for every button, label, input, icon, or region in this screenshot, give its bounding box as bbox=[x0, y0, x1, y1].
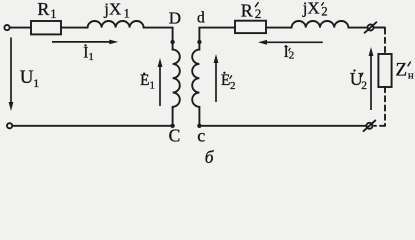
svg-text:d: d bbox=[197, 10, 205, 27]
svg-text:1: 1 bbox=[33, 76, 39, 90]
dashed wire load to bottom corner bbox=[384, 87, 386, 126]
voltage arrow U2' bbox=[369, 47, 374, 110]
wire coil1 to corner D bbox=[144, 27, 173, 29]
label I1 current bbox=[83, 44, 94, 63]
svg-text:1: 1 bbox=[124, 7, 130, 21]
wire W2 to node c bbox=[198, 107, 200, 126]
terminal bottom-left bbox=[7, 123, 12, 128]
svg-text:U: U bbox=[20, 67, 34, 88]
resistor R1 bbox=[31, 21, 61, 34]
crossed terminal bottom-right bbox=[366, 123, 372, 129]
svg-text:н: н bbox=[408, 69, 414, 81]
svg-text:R: R bbox=[37, 0, 49, 19]
label R2' bbox=[241, 0, 261, 21]
svg-text:C: C bbox=[169, 125, 181, 145]
svg-text:2: 2 bbox=[255, 6, 262, 21]
inductor jX2' bbox=[292, 21, 349, 28]
svg-text:1: 1 bbox=[150, 80, 155, 91]
crossed terminal top-right bbox=[368, 25, 374, 31]
wire corner D down bbox=[172, 28, 174, 50]
label U1 voltage bbox=[20, 67, 40, 90]
label Zn' load bbox=[396, 60, 414, 82]
label R1 bbox=[37, 0, 56, 21]
wire W1 to node C bbox=[172, 107, 174, 126]
bottom wire left bbox=[13, 125, 173, 127]
current arrow I2 bbox=[258, 40, 323, 45]
svg-text:E: E bbox=[140, 72, 149, 89]
svg-text:2: 2 bbox=[289, 49, 295, 61]
wire R1 to coil1 bbox=[61, 27, 88, 29]
svg-text:Z: Z bbox=[396, 60, 408, 81]
svg-text:R: R bbox=[241, 0, 253, 20]
resistor R2' bbox=[235, 21, 266, 33]
svg-text:D: D bbox=[169, 8, 181, 27]
svg-text:2: 2 bbox=[321, 5, 327, 19]
winding W1 (primary) bbox=[173, 50, 180, 107]
label jX1 bbox=[103, 0, 130, 21]
svg-text:2: 2 bbox=[361, 80, 367, 92]
node d junction dot bbox=[197, 40, 201, 44]
label I2' current bbox=[284, 44, 295, 61]
svg-text:1: 1 bbox=[50, 7, 56, 21]
inductor jX1 bbox=[88, 21, 144, 28]
bottom wire right bbox=[199, 125, 366, 127]
voltage arrow U1 bbox=[9, 38, 14, 112]
wire T1 to R1 bbox=[10, 27, 31, 29]
wire d to R2 bbox=[199, 27, 235, 29]
svg-text:2: 2 bbox=[230, 80, 236, 92]
svg-text:c: c bbox=[197, 125, 205, 145]
node D junction dot bbox=[170, 40, 174, 44]
dashed wire down to load bbox=[384, 29, 386, 55]
winding W2 (secondary) bbox=[192, 50, 199, 107]
wire terminal to corner bbox=[374, 27, 386, 29]
wire coil2 to top-right terminal bbox=[348, 27, 367, 29]
dashed wire corner to bottom-right terminal bbox=[374, 125, 385, 127]
load Z'n bbox=[378, 54, 391, 87]
current arrow I1 bbox=[52, 40, 118, 45]
node C junction dot bbox=[170, 124, 174, 128]
emf arrow E1 bbox=[158, 58, 163, 106]
svg-text:1: 1 bbox=[89, 52, 94, 63]
svg-text:E: E bbox=[221, 72, 230, 89]
label E2' emf bbox=[221, 72, 236, 92]
terminal top-left bbox=[4, 25, 9, 30]
emf arrow E2 bbox=[214, 54, 219, 102]
wire corner d down bbox=[198, 28, 200, 50]
svg-text:jX: jX bbox=[103, 0, 121, 18]
wire R2 to coil2 bbox=[266, 27, 292, 29]
svg-text:б: б bbox=[205, 147, 215, 164]
label E1 emf bbox=[140, 72, 155, 91]
node c junction dot bbox=[197, 124, 201, 128]
label jX2' bbox=[302, 0, 328, 19]
label U2' voltage bbox=[350, 69, 368, 92]
svg-text:jX: jX bbox=[302, 0, 320, 18]
